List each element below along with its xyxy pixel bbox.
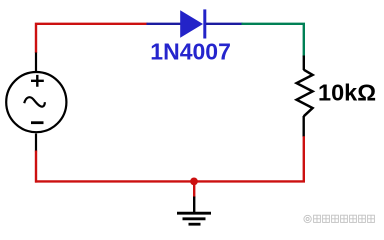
ground symbol bars bbox=[177, 212, 211, 215]
wire green segment to top-right corner and down bbox=[242, 24, 304, 57]
resistor R1 top lead (black) bbox=[303, 56, 305, 71]
svg-text:10kΩ: 10kΩ bbox=[318, 79, 376, 105]
junction node dot bbox=[190, 178, 198, 186]
wire red left vertical bottom bbox=[35, 151, 37, 183]
resistor R1 zigzag body bbox=[297, 70, 313, 117]
AC source V1 circle bbox=[6, 72, 66, 132]
resistor R1 bottom lead (black) bbox=[303, 116, 305, 137]
wire top-left red segment (node A to diode anode net) bbox=[36, 24, 148, 53]
AC source sine symbol bbox=[24, 97, 45, 106]
watermark (gray glyph approximation) bbox=[304, 215, 375, 223]
diode D1 cathode bar bbox=[203, 9, 206, 38]
wire red right-bottom segment bbox=[35, 136, 304, 181]
diode D1 1N4007 triangle (anode) bbox=[180, 10, 203, 38]
AC source minus sign bbox=[31, 121, 44, 124]
wire blue cathode lead out of diode bbox=[206, 23, 243, 25]
AC source V1 top lead (black) bbox=[35, 53, 37, 73]
AC source plus sign bbox=[31, 75, 44, 87]
AC source V1 bottom lead (black) bbox=[35, 134, 37, 152]
wire blue anode lead into diode bbox=[147, 23, 182, 25]
svg-text:1N4007: 1N4007 bbox=[150, 39, 231, 65]
ground stub red bbox=[193, 181, 195, 198]
ground stub black bbox=[193, 197, 195, 214]
